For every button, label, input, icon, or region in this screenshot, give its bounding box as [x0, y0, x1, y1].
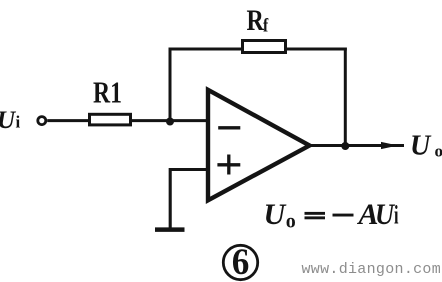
svg-text:R: R — [247, 4, 265, 37]
output arrow — [381, 142, 398, 149]
svg-text:U: U — [375, 198, 395, 231]
node Ui label — [0, 107, 21, 134]
resistor Rf — [243, 41, 286, 53]
ground — [155, 227, 185, 232]
wire feedback down to output node — [344, 48, 347, 147]
op-amp U1 — [208, 90, 310, 201]
wire R1 to inverting input — [132, 119, 208, 122]
svg-text:i: i — [394, 201, 399, 230]
wire input to R1 — [47, 119, 90, 122]
svg-text:o: o — [286, 211, 296, 233]
node junction inverting input — [166, 118, 174, 126]
figure number 6 — [223, 242, 257, 282]
svg-text:U: U — [0, 107, 17, 134]
wire Rf to output branch — [285, 48, 347, 51]
svg-text:i: i — [16, 112, 21, 131]
label Rf — [247, 4, 269, 37]
node Uo label — [410, 131, 442, 162]
svg-text:U: U — [410, 131, 432, 162]
label R1 — [93, 75, 122, 110]
svg-text:o: o — [435, 142, 442, 161]
equation Uo = -AUi — [264, 198, 399, 233]
wire output — [307, 144, 404, 147]
svg-text:www.diangon.com: www.diangon.com — [302, 261, 442, 278]
watermark www.diangon.com — [302, 261, 442, 278]
svg-text:6: 6 — [232, 242, 250, 282]
wire junction up to feedback rail — [169, 48, 172, 123]
resistor R1 — [90, 114, 131, 125]
svg-text:f: f — [263, 16, 269, 37]
wire feedback rail to Rf — [169, 48, 244, 51]
svg-text:U: U — [264, 198, 287, 231]
input terminal — [38, 117, 46, 125]
svg-text:R1: R1 — [93, 75, 122, 110]
node output junction — [341, 142, 349, 150]
wire noninverting input — [170, 170, 207, 229]
